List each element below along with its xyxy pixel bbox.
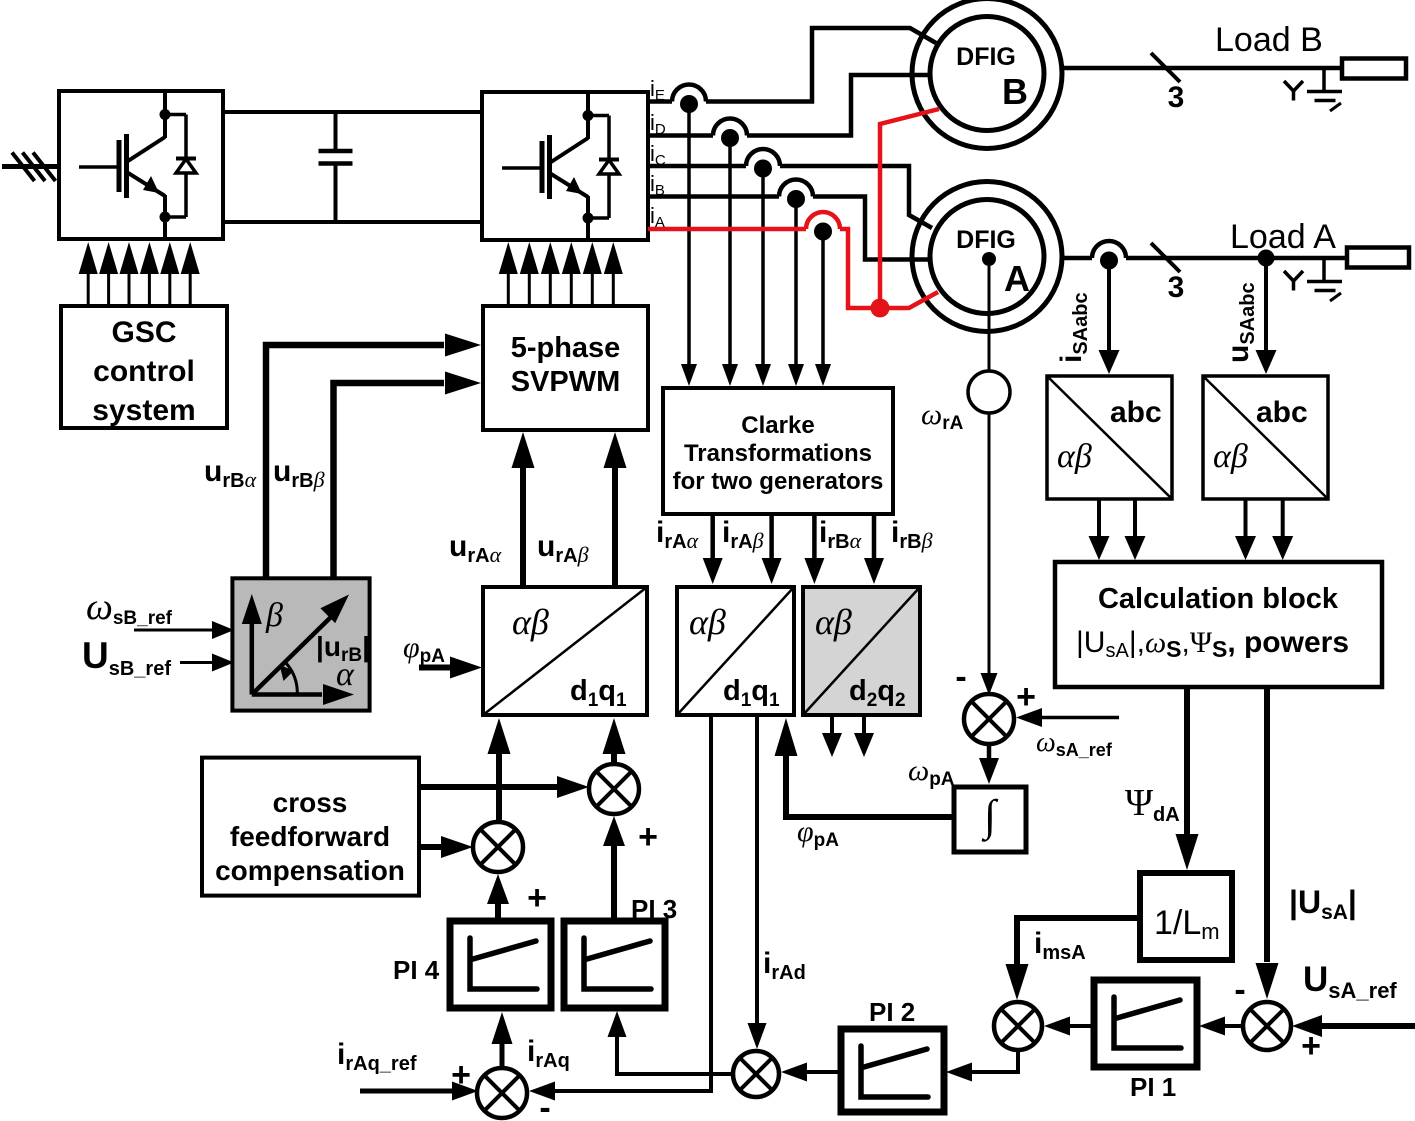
label urB-beta (273, 455, 325, 492)
svg-text:irAβ: irAβ (722, 516, 764, 553)
svg-text:iE: iE (650, 76, 665, 104)
svg-text:irAd: irAd (763, 947, 806, 984)
GSC control system block (61, 306, 227, 428)
label irAq (527, 1035, 570, 1072)
label irAq_ref (337, 1038, 417, 1075)
irAq_ref input arrow (360, 1082, 478, 1101)
DFIG B machine (912, 0, 1062, 149)
phase wire iA (red) with current sensor (648, 212, 880, 308)
phi pA feedback wire (775, 718, 955, 817)
cross feedforward compensation block (202, 758, 419, 896)
svg-text:ωrA: ωrA (921, 398, 964, 434)
summing junction speed (964, 694, 1014, 744)
svg-text:-: - (1234, 971, 1245, 1009)
alpha-beta to d2q2 block (current, generator B) (803, 587, 920, 715)
svg-text:A: A (1004, 258, 1030, 299)
svg-text:+: + (638, 818, 658, 856)
label plus (speed junction) (1016, 678, 1036, 716)
label urA-alpha (449, 530, 502, 567)
UsA magnitude wire (1256, 687, 1279, 999)
svg-text:ΨdA: ΨdA (1125, 782, 1180, 826)
label urA-beta (537, 530, 589, 567)
summing junction imsA (994, 1002, 1042, 1050)
u_rA-beta arrow to SVPWM (604, 432, 627, 587)
voltage vector generator box (232, 578, 370, 710)
label 3 (Load B) (1168, 81, 1185, 114)
Clarke output arrows (703, 514, 884, 584)
arrow q-junction to d1q1 box (603, 718, 626, 764)
label Load A (1230, 218, 1336, 256)
irAd wire (748, 715, 767, 1049)
red rotor wire to DFIG B (880, 109, 939, 308)
omega sB_ref input arrow (134, 621, 234, 639)
label Psi dA (1125, 782, 1180, 826)
arrow junction to integrator (979, 744, 999, 784)
irAq feedback wire (529, 715, 711, 1101)
svg-text:-: - (955, 658, 966, 696)
label plus (UsA junction) (1301, 1027, 1321, 1065)
svg-text:irBβ: irBβ (891, 516, 933, 553)
UsA_ref input arrow (1292, 1015, 1415, 1037)
iSAabc measurement line (1099, 263, 1120, 374)
svg-text:PI 4: PI 4 (393, 955, 440, 985)
d2q2 output arrow 1 (822, 715, 842, 757)
svg-text:urBβ: urBβ (273, 455, 325, 492)
Calculation block (1055, 562, 1382, 687)
svg-text:Transformations: Transformations (684, 440, 872, 467)
svg-text:system: system (92, 394, 195, 427)
label irAd (763, 947, 806, 984)
svg-text:Load A: Load A (1230, 218, 1336, 256)
speed sensor circle omega rA (968, 371, 1010, 413)
svg-text:β: β (265, 597, 283, 634)
svg-text:urAα: urAα (449, 530, 502, 567)
svg-text:UsA_ref: UsA_ref (1303, 960, 1397, 1003)
svg-text:PI 2: PI 2 (869, 997, 915, 1027)
svg-text:αβ: αβ (689, 602, 726, 642)
U sB_ref input arrow (180, 654, 234, 672)
DC link capacitor (319, 112, 353, 222)
svg-text:|UsA|: |UsA| (1289, 884, 1357, 924)
label plus (d-junction) (527, 879, 547, 917)
abc to alpha-beta block (currents) (1047, 376, 1172, 499)
u_rB-beta wire to SVPWM (334, 372, 482, 579)
summing junction irAq_ref (477, 1068, 527, 1118)
DC link bottom rail (223, 220, 482, 224)
arrow UsA junction to PI1 (1199, 1017, 1243, 1036)
label irA-beta (722, 516, 764, 553)
label plus (q-junction) (638, 818, 658, 856)
label omega sB_ref (86, 586, 173, 629)
red rotor wire junction node (871, 299, 890, 318)
grounding capacitor Load A (1307, 258, 1342, 301)
iD measurement line to Clarke (722, 142, 738, 386)
label UsA magnitude (1289, 884, 1357, 924)
DFIG A rotor shaft node (982, 252, 996, 266)
DFIG A machine (912, 182, 1062, 332)
abc to alpha-beta block (voltages) (1203, 376, 1328, 499)
svg-text:3: 3 (1168, 271, 1185, 304)
svg-text:compensation: compensation (215, 855, 405, 886)
wye symbol Load A (1284, 271, 1303, 291)
label iD (650, 110, 666, 138)
svg-text:φpA: φpA (403, 631, 445, 667)
svg-text:urAβ: urAβ (537, 530, 589, 567)
label 3 (Load A) (1168, 271, 1185, 304)
svg-text:Load B: Load B (1215, 21, 1323, 59)
svg-text:αβ: αβ (1213, 438, 1248, 475)
label minus (UsA junction) (1234, 971, 1245, 1009)
svg-text:irAα: irAα (656, 516, 699, 553)
arrow PI2 to irAd junction (781, 1063, 841, 1082)
svg-text:ωsA_ref: ωsA_ref (1036, 727, 1113, 760)
Load B block (1342, 59, 1406, 79)
d2q2 output arrow 2 (854, 715, 874, 757)
svg-text:abc: abc (1110, 396, 1162, 429)
svg-text:abc: abc (1256, 396, 1308, 429)
svg-text:αβ: αβ (512, 602, 549, 642)
PI 1 controller (1094, 980, 1197, 1067)
svg-text:SVPWM: SVPWM (511, 366, 621, 398)
red rotor wire to DFIG A (880, 292, 938, 308)
rotor speed shaft line (988, 266, 991, 371)
u_rA-alpha arrow to SVPWM (512, 432, 535, 587)
1/Lm gain block (1140, 873, 1232, 960)
uSAabc measurement line (1256, 266, 1277, 374)
label irB-alpha (819, 516, 862, 553)
summing junction UsA (1243, 1002, 1291, 1050)
u_rB-alpha wire to SVPWM (266, 334, 481, 579)
label irB-beta (891, 516, 933, 553)
label iB (650, 171, 665, 199)
Load A block (1347, 248, 1409, 268)
svg-text:φpA: φpA (797, 815, 839, 851)
cross feedforward output to q-axis junction (419, 776, 589, 798)
phase wire iC with current sensor (648, 149, 932, 228)
PI 4 controller (450, 921, 551, 1008)
svg-text:imsA: imsA (1034, 927, 1086, 964)
label omega pA (908, 754, 955, 790)
iA measurement line to Clarke (815, 238, 831, 386)
grid connection (mains symbol) (2, 153, 59, 182)
label U sB_ref (82, 635, 171, 680)
label phi pA (797, 815, 839, 851)
arrow imsA junction to PI2 (946, 1050, 1018, 1082)
omega sA_ref input arrow (1016, 708, 1119, 727)
label minus (iq junction) (539, 1089, 550, 1121)
svg-text:control: control (93, 355, 195, 388)
svg-text:5-phase: 5-phase (511, 332, 621, 364)
svg-text:PI 1: PI 1 (1130, 1072, 1176, 1102)
label Load B (1215, 21, 1323, 59)
phase wire iE with current sensor (648, 28, 936, 113)
summing junction q-axis (PI3) (589, 764, 639, 814)
svg-text:urBα: urBα (204, 455, 257, 492)
svg-text:feedforward: feedforward (230, 821, 390, 852)
5-phase SVPWM block (483, 306, 648, 430)
svg-text:for two generators: for two generators (673, 468, 884, 495)
label minus (speed junction) (955, 658, 966, 696)
label iA (650, 203, 665, 231)
cross feedforward output to d-axis junction (419, 836, 473, 858)
arrow PI4 to d-junction (487, 874, 509, 921)
label plus (iq junction) (451, 1056, 471, 1094)
label phi pA (input) (403, 631, 445, 667)
grounding capacitor Load B (1307, 68, 1342, 111)
DC link top rail (223, 110, 482, 114)
summing junction irAd (733, 1051, 779, 1097)
svg-text:Clarke: Clarke (741, 412, 814, 439)
Load B stator wire (1062, 66, 1342, 71)
Clarke Transformations block (663, 388, 893, 514)
svg-text:iC: iC (650, 141, 666, 169)
PI 2 controller (841, 1029, 944, 1112)
gate pulse arrows from 5-phase SVPWM (499, 242, 623, 306)
svg-text:UsB_ref: UsB_ref (82, 635, 171, 680)
svg-text:iA: iA (650, 203, 665, 231)
arrow PI3 to q-junction (603, 816, 625, 921)
svg-text:αβ: αβ (815, 602, 852, 642)
integrator block (954, 787, 1026, 852)
label iE (650, 76, 665, 104)
svg-text:+: + (1016, 678, 1036, 716)
phi pA input arrow (419, 657, 482, 679)
machine-side 5-phase converter (bridge) (482, 92, 648, 240)
svg-text:iB: iB (650, 171, 665, 199)
alpha-beta to d1q1 block (voltage, generator A) (483, 587, 647, 715)
arrow d-junction to d1q1 box (488, 718, 511, 822)
svg-text:cross: cross (273, 787, 348, 818)
arrow iqref-junction to PI4 (492, 1012, 513, 1068)
grid-side converter (GSC bridge) (59, 91, 223, 239)
svg-text:GSC: GSC (111, 316, 176, 349)
label urB-alpha (204, 455, 257, 492)
iA sensor dot (814, 223, 832, 241)
svg-text:iSAabc: iSAabc (1055, 292, 1092, 363)
iC measurement line to Clarke (755, 172, 771, 386)
svg-text:irAq: irAq (527, 1035, 570, 1072)
label UsA_ref (1303, 960, 1397, 1003)
wye symbol Load B (1284, 81, 1303, 101)
arrows into Calculation block (1089, 499, 1294, 560)
label omega sA_ref (1036, 727, 1113, 760)
svg-text:B: B (1002, 71, 1028, 112)
iE measurement line to Clarke (681, 108, 697, 386)
svg-text:DFIG: DFIG (956, 43, 1016, 71)
label irA-alpha (656, 516, 699, 553)
summing junction d-axis (PI4) (473, 822, 523, 872)
three-phase slash Load A (1151, 243, 1180, 272)
svg-text:uSAabc: uSAabc (1222, 282, 1259, 363)
arrow PI1 to imsA junction (1044, 1017, 1094, 1036)
label PI 2 (869, 997, 915, 1027)
svg-text:ωpA: ωpA (908, 754, 955, 790)
three-phase slash Load B (1151, 53, 1180, 82)
label PI 4 (393, 955, 440, 985)
Load A stator wire (1062, 241, 1347, 270)
svg-text:iD: iD (650, 110, 666, 138)
label imsA (1034, 927, 1086, 964)
svg-text:DFIG: DFIG (956, 226, 1016, 254)
label PI 1 (1130, 1072, 1176, 1102)
iB measurement line to Clarke (788, 203, 804, 386)
phase wire iB with current sensor (648, 180, 929, 260)
svg-text:Calculation block: Calculation block (1098, 583, 1339, 615)
label PI 3 (631, 894, 677, 924)
label omega rA (921, 398, 964, 434)
gate pulse arrows from GSC control system (79, 242, 200, 306)
svg-text:ωsB_ref: ωsB_ref (86, 586, 173, 629)
imsA wire (1006, 918, 1141, 1000)
phase wire iD with current sensor (648, 75, 929, 147)
irAd junction output to PI3 (608, 1011, 734, 1074)
svg-text:αβ: αβ (1057, 438, 1092, 475)
label uSAabc (1222, 282, 1259, 363)
svg-text:irBα: irBα (819, 516, 862, 553)
label iSAabc (1055, 292, 1092, 363)
svg-text:3: 3 (1168, 81, 1185, 114)
omega rA line to summing junction (981, 413, 998, 695)
Psi dA wire (1176, 687, 1199, 870)
PI 3 controller (564, 921, 665, 1008)
voltage tap node uSAabc (1258, 250, 1275, 267)
alpha-beta to d1q1 block (current, generator A) (677, 587, 794, 715)
svg-text:+: + (527, 879, 547, 917)
svg-text:irAq_ref: irAq_ref (337, 1038, 417, 1075)
label iC (650, 141, 666, 169)
